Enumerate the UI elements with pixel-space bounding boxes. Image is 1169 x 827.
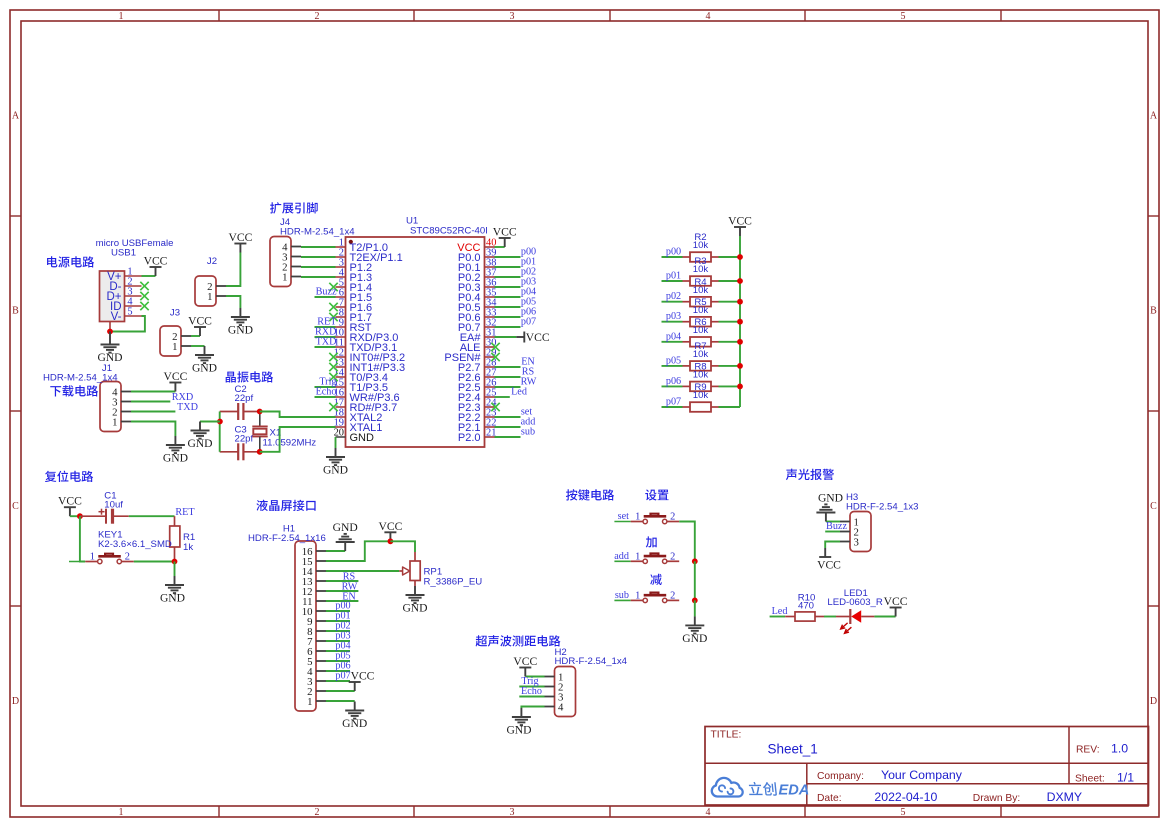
svg-text:4: 4 [706,807,711,818]
capacitor C2 22pf [220,384,260,420]
svg-text:GND: GND [160,592,185,605]
wire p02 stub U1 pin37 [495,276,521,278]
wire crystal left rail [219,412,221,452]
svg-text:p07: p07 [666,397,681,408]
svg-text:VCC: VCC [378,520,402,533]
wire Buzz stub U1 pin6 [315,296,336,298]
svg-text:3: 3 [854,537,859,549]
title alarm 声光报警 [786,469,834,480]
svg-text:J2: J2 [207,256,217,267]
title crystal-circuit 晶振电路 [226,371,273,382]
title lcd-interface 液晶屏接口 [256,500,315,511]
wire R10 to LED1 [824,616,836,618]
net label p06 at U1 [521,307,536,318]
net label sub [615,590,629,601]
svg-text:Date:: Date: [817,793,842,804]
wire U1 pin20 to GND [335,437,337,448]
title ultrasonic 超声波测距电路 [476,635,561,646]
svg-text:USB1: USB1 [111,248,136,259]
wire crystal gnd tap [200,421,220,423]
title block drawnby value DXMY [1047,790,1083,804]
no-connect X on U1 pin12 [329,353,337,361]
net label p07 at R9 [666,397,681,408]
resistor R3 10k [683,256,719,286]
net label RW at U1 [521,377,537,388]
ground GND at H1 pin1 [342,702,367,731]
power VCC at LED1 [884,595,908,617]
ground GND below USB1 [97,332,122,365]
wire p01 stub H1 pin9 [326,620,350,622]
svg-text:R_3386P_EU: R_3386P_EU [424,577,483,588]
net label p06 at H1 [335,661,350,672]
net label Trig at H2 [521,676,538,687]
svg-text:V-: V- [111,311,122,323]
resistor R2 10k [683,232,719,262]
wire J3 pin1 corner [191,345,205,347]
svg-text:p01: p01 [666,271,681,282]
net label p05 at U1 [521,297,536,308]
ground GND at H2 pin4 [506,708,531,737]
net label p07 at H1 [335,671,350,682]
svg-text:p06: p06 [666,376,681,387]
svg-text:1: 1 [119,807,124,818]
junction VCC rail at R5 [737,319,743,325]
svg-text:5: 5 [901,807,906,818]
resistor R10 470 [785,593,824,622]
svg-text:J3: J3 [170,308,180,319]
net label TXD at J1 [177,402,198,413]
power VCC at J1 pin4 [163,370,187,392]
svg-text:Buzz: Buzz [316,287,337,298]
net label p00 at R2 [666,247,681,258]
svg-text:Your Company: Your Company [881,768,963,782]
junction reset VCC node [77,513,83,519]
net label set at U1 [521,407,532,418]
junction VCC rail at R2 [737,254,743,260]
ground GND below J3 [192,346,217,375]
svg-text:K2-3.6×6.1_SMD: K2-3.6×6.1_SMD [98,539,172,550]
wire Led stub U1 pin25 [495,396,510,398]
net label p03 at R5 [666,311,681,322]
wire J3 pin2 to VCC [191,335,200,337]
net label p02 at R4 [666,291,681,302]
wire Led stub [770,616,786,618]
title block Company label [817,771,864,782]
power VCC below H3 (inverted) [817,548,841,572]
wire H1 pin16 to GND [326,550,345,552]
wire LED1 to VCC [874,616,895,618]
wire Buzz stub H3 pin2 [825,531,840,533]
net label RET [175,507,195,518]
svg-text:GND: GND [402,602,427,615]
net label p01 at H1 [335,611,350,622]
svg-text:470: 470 [798,601,814,612]
svg-text:GND: GND [682,632,707,645]
wire R5 to VCC rail [719,321,741,323]
wire J1 pin4 to VCC [131,391,175,393]
svg-text:HDR-M-2.54_1x4: HDR-M-2.54_1x4 [43,373,118,384]
wire p00 stub U1 pin39 [495,256,521,258]
svg-text:p05: p05 [666,355,681,366]
wire set button to rail [679,522,695,562]
svg-text:22pf: 22pf [235,434,254,445]
no-connect X on U1 pin29 [491,353,499,361]
svg-text:10k: 10k [693,370,709,381]
wire J4 pin1 to U1 pin4 [301,276,336,278]
wire Trig stub H2 pin2 [519,686,544,688]
svg-text:TITLE:: TITLE: [711,730,742,741]
wire EN stub U1 pin28 [495,366,521,368]
wire rail add-sub [694,561,696,600]
wire Trig stub U1 pin15 [315,386,336,388]
svg-text:TXD: TXD [177,402,198,413]
ground GND crystal [187,422,212,451]
wire p02 stub to R4 [662,301,683,303]
wire H1 pin15 to VCC rail [326,541,390,561]
svg-text:GND: GND [818,492,843,505]
wire p06 stub H1 pin4 [326,670,350,672]
svg-text:Drawn By:: Drawn By: [973,793,1021,804]
svg-text:10k: 10k [693,349,709,360]
svg-text:p00: p00 [666,247,681,258]
svg-text:1: 1 [90,552,95,563]
net label p05 at H1 [335,651,350,662]
junction VCC rail at R8 [737,384,743,390]
wire R4 to VCC rail [719,301,741,303]
svg-text:10k: 10k [693,264,709,275]
net label p04 at U1 [521,287,536,298]
title block sheet name Sheet_1 [768,742,818,757]
net label RW at H1 [342,582,358,593]
net label p05 at R7 [666,355,681,366]
svg-text:p02: p02 [666,291,681,302]
no-connect X on U1 pin7 [329,303,337,311]
net label Echo at H2 [521,686,542,697]
svg-text:HDR-F-2.54_1x3: HDR-F-2.54_1x3 [846,502,919,513]
title block Sheet label [1075,774,1105,785]
wire RS stub U1 pin27 [495,376,521,378]
svg-text:Company:: Company: [817,771,864,782]
net label p04 at H1 [335,641,350,652]
wire J2 pin2 to VCC [226,253,240,287]
svg-text:A: A [1150,111,1158,122]
svg-text:5: 5 [127,307,132,318]
power VCC at H2 pin1 [513,655,537,677]
wire TXD stub U1 pin11 [315,346,336,348]
wire VCC to C1/KEY1 node [70,515,80,517]
wire J4 pin4 to U1 pin1 [301,246,336,248]
wire p00 stub to R2 [662,256,683,258]
junction VCC rail at R6 [737,339,743,345]
ground GND reset circuit [160,576,185,605]
net label set [618,511,629,522]
subtitle 设置 set [645,489,668,500]
pushbutton KEY1 K2-3.6x6.1_SMD [69,530,172,564]
no-connect X on U1 pin30 [491,343,499,351]
svg-text:1: 1 [635,551,640,562]
ground GND below RP1 [402,586,427,615]
resistor R4 10k [683,277,719,307]
connector H1 HDR-F-2.54_1x16 [248,524,326,712]
no-connect X on USB1 pin2 [140,282,148,290]
svg-text:VCC: VCC [817,559,841,572]
svg-text:GND: GND [163,452,188,465]
wire p05 stub to R7 [662,365,683,367]
svg-text:D: D [1150,696,1157,707]
ground GND key circuit [682,616,707,645]
svg-text:VCC: VCC [58,495,82,508]
no-connect X on U1 pin8 [329,313,337,321]
junction rail at add [692,558,698,564]
net label p03 at U1 [521,277,536,288]
svg-text:LED-0603_R: LED-0603_R [827,597,883,608]
net label RS at U1 [522,367,535,378]
power VCC above J3 [188,315,212,337]
potentiometer RP1 R_3386P_EU [410,552,482,588]
svg-text:4: 4 [558,702,564,714]
wire J2 pin1 to GND [226,296,240,308]
ground GND at U1 pin20 [323,448,348,477]
wire RW stub U1 pin26 [495,386,521,388]
svg-text:Echo: Echo [521,686,542,697]
pushbutton set [614,512,679,524]
connector H2 HDR-F-2.54_1x4 [545,647,628,717]
subtitle 加 add [646,536,657,547]
no-connect X on U1 pin17 [329,403,337,411]
svg-text:10k: 10k [693,285,709,296]
svg-text:GND: GND [506,724,531,737]
wire RS stub H1 pin13 [326,580,358,582]
svg-text:p04: p04 [666,331,681,342]
wire R3 to VCC rail [719,280,741,282]
net label add at U1 [521,417,536,428]
wire p04 stub to R6 [662,341,683,343]
svg-text:GND: GND [187,437,212,450]
svg-text:HDR-M-2.54_1x4: HDR-M-2.54_1x4 [280,227,355,238]
junction VCC rail at R3 [737,278,743,284]
net label p02 at H1 [335,621,350,632]
wire USB1 pin5 to GND net [110,316,145,332]
power VCC above J2 [228,231,252,253]
net label Echo at U1 [316,387,337,398]
wire rail to GND [694,600,696,616]
svg-text:Led: Led [511,387,527,398]
wire XTAL1 from crystal bottom [260,427,336,452]
wire set stub U1 pin23 [495,416,521,418]
svg-text:B: B [1150,306,1157,317]
svg-text:11.0592MHz: 11.0592MHz [263,438,317,449]
wire XTAL2 from crystal top [260,412,336,418]
wire p06 stub to R8 [662,385,683,387]
connector H3 HDR-F-2.54_1x3 [840,492,919,552]
svg-text:EDA: EDA [779,783,810,799]
wire Echo stub U1 pin16 [315,396,336,398]
wire p04 stub U1 pin35 [495,296,521,298]
svg-text:VCC: VCC [513,655,537,668]
crystal X1 11.0592MHz [252,412,316,452]
wire J4 pin2 to U1 pin3 [301,266,336,268]
svg-text:3: 3 [510,11,515,22]
power VCC resistor network [728,215,752,237]
subtitle 减 sub [650,574,662,585]
svg-text:1: 1 [282,272,287,284]
net label RS at H1 [343,572,356,583]
svg-text:1.0: 1.0 [1111,742,1128,756]
capacitor C1 10uf [80,491,129,524]
wire p02 stub H1 pin8 [326,630,350,632]
ground GND below J1 [163,436,188,465]
IC U1 STC89C52RC-40I [334,216,498,448]
svg-text:VCC: VCC [188,315,212,328]
svg-text:2: 2 [125,552,130,563]
net label p04 at R6 [666,331,681,342]
svg-text:HDR-F-2.54_1x16: HDR-F-2.54_1x16 [248,533,326,544]
resistor R8 10k [683,362,719,392]
svg-text:RET: RET [175,507,195,518]
svg-text:2022-04-10: 2022-04-10 [874,790,937,804]
svg-text:A: A [12,111,20,122]
wire H1 pin2 to VCC [326,690,355,692]
svg-text:10k: 10k [693,325,709,336]
wire add stub U1 pin22 [495,426,521,428]
title block company value [881,768,963,782]
junction VCC/RP1 node [388,538,394,544]
resistor R5 10k [683,297,719,327]
svg-text:2: 2 [670,512,675,523]
wire VCC node down to KEY1 [80,516,85,561]
wire USB1 pin1 to VCC [142,275,156,277]
wire C1 to R1 top (RET) [129,515,175,517]
resistor R7 10k [683,341,719,371]
wire p03 stub H1 pin7 [326,640,350,642]
svg-text:REV:: REV: [1076,745,1100,756]
svg-text:1/1: 1/1 [1117,771,1134,785]
title block date value [874,790,937,804]
junction VCC rail at R4 [737,299,743,305]
wire EN stub H1 pin11 [326,600,358,602]
svg-text:p03: p03 [666,311,681,322]
svg-text:HDR-F-2.54_1x4: HDR-F-2.54_1x4 [555,656,628,667]
svg-text:GND: GND [350,432,375,444]
svg-text:2: 2 [315,11,320,22]
svg-text:22pf: 22pf [235,393,254,404]
svg-text:VCC: VCC [351,670,375,683]
wire p07 stub H1 pin3 [326,680,350,682]
wire node to GND [174,562,176,577]
svg-text:1: 1 [635,512,640,523]
svg-text:GND: GND [342,717,367,730]
svg-text:DXMY: DXMY [1047,790,1083,804]
wire J1 pin3 RXD stub [131,401,170,403]
wire R8 to VCC rail [719,385,741,387]
wire p04 stub H1 pin6 [326,650,350,652]
RP1 wiper arrow [399,567,410,575]
logo LCEDA 立创EDA [712,778,810,799]
ground GND below J2 [228,308,253,337]
junction VCC rail at R7 [737,363,743,369]
svg-text:2: 2 [670,590,675,601]
connector J4 HDR-M-2.54_1x4 [270,217,355,287]
svg-text:sub: sub [615,590,629,601]
net label TXD at U1 [316,337,337,348]
title block sheet value 1/1 [1117,771,1134,785]
wire p07 stub to R9 [662,406,683,408]
pushbutton sub [614,590,679,602]
wire R2 to VCC rail [719,256,741,258]
svg-text:2: 2 [315,807,320,818]
net label p01 at U1 [521,257,536,268]
title block REV label [1076,745,1100,756]
svg-text:3: 3 [510,807,515,818]
svg-text:VCC: VCC [728,215,752,228]
wire H2 pin1 to VCC [525,676,544,678]
title block DrawnBy label [973,793,1021,804]
wire sub stub U1 pin21 [495,436,521,438]
net label Buzz at U1 [316,287,337,298]
svg-text:TXD: TXD [316,337,337,348]
svg-text:GND: GND [192,362,217,375]
svg-text:D: D [12,696,19,707]
svg-text:p07: p07 [335,671,350,682]
wire p05 stub H1 pin5 [326,660,350,662]
svg-text:1: 1 [207,291,212,303]
title download-circuit 下载电路 [50,385,98,396]
svg-text:20: 20 [334,428,344,439]
wire p03 stub to R5 [662,321,683,323]
net label add [614,551,629,562]
title power-circuit 电源电路 [47,256,94,267]
junction crystal top node [257,409,263,415]
title block TITLE label [711,730,742,741]
svg-text:sub: sub [521,427,535,438]
wire H2 pin4 to GND [521,707,544,709]
no-connect X on U1 pin5 [329,283,337,291]
net label p06 at R8 [666,376,681,387]
ground GND above H1 pin16 (inverted) [333,521,358,551]
wire R7 to VCC rail [719,365,741,367]
pushbutton add [614,551,679,563]
svg-text:p07: p07 [521,317,536,328]
net label Buzz at H3 [826,521,847,532]
svg-text:1: 1 [119,11,124,22]
net label EN at U1 [521,357,535,368]
power VCC at USB1 pin1 [144,255,168,277]
net label RET at U1 [317,317,337,328]
LED LED1 LED-0603_R [827,588,883,633]
net label sub at U1 [521,427,535,438]
svg-text:1: 1 [307,696,312,708]
wire VCC node to RP1 top [390,541,415,552]
junction R1/KEY1 node [172,559,178,565]
ground GND above H3 (inverted) [816,492,843,522]
power VCC reset circuit [58,495,82,517]
svg-text:GND: GND [228,324,253,337]
svg-text:10k: 10k [693,240,709,251]
wire J4 pin3 to U1 pin2 [301,256,336,258]
wire p01 stub U1 pin38 [495,266,521,268]
title block rev value 1.0 [1111,742,1128,756]
svg-text:2: 2 [670,551,675,562]
wire H3 pin1 to GND [826,521,840,523]
connector USB1 micro USBFemale [96,238,174,332]
net label Trig at U1 [319,377,336,388]
svg-text:GND: GND [323,464,348,477]
no-connect X on USB1 pin3 [140,292,148,300]
junction crystal bottom node [257,449,263,455]
svg-text:VCC: VCC [144,255,168,268]
svg-text:C: C [1150,501,1157,512]
title block frame [705,727,1149,806]
